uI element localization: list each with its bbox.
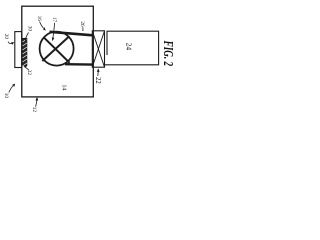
svg-text:24: 24 xyxy=(124,43,133,51)
svg-text:FIG. 2: FIG. 2 xyxy=(161,40,176,66)
downstream duct rect 24 xyxy=(105,31,159,65)
svg-text:20: 20 xyxy=(3,34,9,40)
fan X spokes xyxy=(42,37,69,63)
damper box 22 with X xyxy=(92,31,104,67)
svg-text:22: 22 xyxy=(94,77,101,84)
svg-text:14: 14 xyxy=(60,84,66,90)
leader 20 xyxy=(8,42,12,44)
leader 17 xyxy=(53,23,55,38)
svg-text:32: 32 xyxy=(26,70,32,76)
svg-text:17: 17 xyxy=(51,17,56,23)
housing box 12 outline xyxy=(22,6,94,97)
svg-text:16: 16 xyxy=(36,16,41,21)
svg-text:26: 26 xyxy=(79,21,85,27)
leader 16 xyxy=(40,22,44,28)
leader 32 xyxy=(26,68,29,70)
leader 26 xyxy=(82,27,84,31)
fan circle 16 xyxy=(40,32,74,66)
duct bottom line xyxy=(65,63,93,66)
svg-text:12: 12 xyxy=(31,107,37,113)
leader 22 xyxy=(97,72,99,77)
svg-text:10: 10 xyxy=(3,93,9,99)
damper X diagonals xyxy=(92,31,104,67)
leader 12 xyxy=(36,100,37,106)
inlet channel 20 (outside left wall) xyxy=(15,32,22,68)
filter hatch pattern xyxy=(22,39,27,66)
svg-text:30: 30 xyxy=(26,26,32,32)
duct top line xyxy=(50,32,93,36)
leader 30 xyxy=(26,33,29,39)
filter hatched bar 30/32 xyxy=(22,38,27,66)
leader 10 xyxy=(9,86,13,93)
